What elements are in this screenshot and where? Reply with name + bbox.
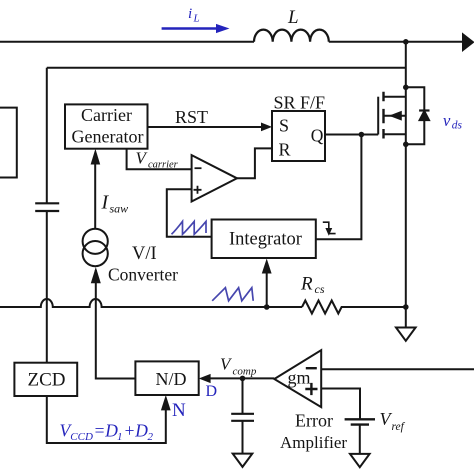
left cropped box [0, 108, 17, 178]
current source circles [83, 229, 108, 267]
wire left sense vertical lower [46, 211, 48, 363]
waveform step glyph [323, 222, 336, 234]
svg-text:1: 1 [117, 431, 123, 443]
wire N/D output to V/I [96, 283, 136, 379]
label Vcomp [220, 354, 257, 377]
svg-text:CCD: CCD [70, 431, 93, 443]
capacitor C-sense [35, 203, 59, 211]
transistor Q1 body arrow [390, 112, 401, 120]
wire Q output [325, 134, 378, 136]
node drain mos [403, 85, 409, 91]
wire rail2 [47, 67, 406, 69]
transistor Q1 gate bar [377, 97, 379, 135]
svg-text:V: V [136, 148, 149, 167]
wire ZCD drop [47, 396, 166, 443]
svg-text:N: N [172, 400, 186, 421]
label Isaw [101, 192, 129, 216]
wire gm plus input [321, 389, 360, 420]
wire Vref to ground [359, 425, 361, 454]
svg-text:comp: comp [233, 365, 257, 377]
wire comparator output to R [237, 148, 272, 178]
current source arrow line [95, 270, 97, 283]
svg-text:ds: ds [452, 120, 463, 132]
svg-text:ref: ref [392, 421, 406, 433]
node rcs left [264, 304, 270, 310]
svg-text:L: L [193, 13, 200, 25]
label Vcarrier [136, 148, 179, 170]
comparator plus sign [194, 186, 202, 194]
svg-text:V: V [220, 354, 233, 373]
wire gm minus input [321, 368, 474, 370]
wire cap to ground [242, 421, 244, 454]
wire Vcarrier [127, 149, 192, 170]
wire integrator bottom feed [266, 271, 268, 307]
transistor Q1 drain lead [384, 96, 406, 98]
svg-text:Integrator: Integrator [229, 230, 302, 250]
svg-text:2: 2 [148, 431, 154, 443]
wire Vcomp [210, 377, 274, 379]
svg-text:L: L [287, 7, 299, 28]
wire top rail right [329, 41, 462, 43]
svg-text:Converter: Converter [108, 265, 178, 285]
svg-text:i: i [188, 6, 192, 22]
svg-text:saw: saw [110, 202, 129, 216]
op-amp comparator U1 [192, 155, 237, 201]
wire comparator plus input [167, 189, 212, 237]
wire top rail left [0, 41, 254, 43]
voltage source Vref [345, 419, 375, 424]
svg-text:Carrier: Carrier [81, 105, 132, 125]
box ZCD [14, 363, 77, 396]
svg-text:R: R [279, 139, 291, 159]
svg-text:RST: RST [175, 107, 208, 127]
comparator minus sign [195, 167, 202, 169]
transistor Q1 channel bars [382, 92, 384, 139]
label vds [443, 111, 463, 132]
arrow output right [462, 32, 474, 52]
svg-text:v: v [443, 111, 451, 130]
gm plus sign [305, 383, 317, 395]
wire cs rail with hops [0, 299, 302, 307]
svg-text:=D: =D [94, 420, 119, 440]
arrow iL blue [162, 24, 230, 33]
transistor Q1 source lead [384, 133, 406, 135]
wire current source to carrier [94, 163, 96, 229]
svg-text:+D: +D [124, 420, 149, 440]
svg-text:V/I: V/I [132, 244, 157, 264]
box N/D [135, 361, 198, 395]
transistor Q1 body lead [384, 115, 406, 117]
wire integrator output to gate node [316, 135, 362, 240]
node source mos [403, 142, 409, 148]
ground G3 [233, 454, 253, 467]
waveform sawtooth rcs [212, 288, 253, 301]
arrow current source up [91, 267, 101, 283]
label VCCD equation [60, 420, 154, 443]
arrow integrator feed up [262, 259, 272, 274]
box carrier generator [65, 104, 148, 148]
wire RST [148, 126, 263, 128]
wire Vcomp cap drop [242, 378, 244, 413]
svg-text:S: S [279, 116, 289, 136]
waveform sawtooth comparator [172, 221, 207, 234]
wire left sense vertical upper [46, 68, 48, 204]
body diode D1 [406, 87, 430, 144]
arrow N up into ND [161, 395, 171, 410]
svg-text:cs: cs [315, 282, 325, 296]
resistor Rcs [302, 301, 406, 314]
arrow vcomp into ND [199, 374, 211, 383]
ground G1 [396, 307, 416, 341]
box integrator [212, 220, 316, 259]
node vcomp [240, 376, 246, 382]
node drain top [403, 39, 409, 45]
arrow Isaw up [91, 149, 101, 165]
node gate [359, 132, 365, 138]
svg-text:carrier: carrier [148, 160, 179, 171]
label Rcs [300, 274, 325, 296]
svg-text:D: D [206, 383, 218, 400]
svg-text:Error: Error [295, 411, 333, 431]
svg-text:Q: Q [311, 126, 324, 146]
gm amplifier U2 [274, 350, 321, 407]
label Vref [380, 409, 406, 433]
svg-text:ZCD: ZCD [28, 370, 66, 391]
svg-text:gm: gm [288, 368, 311, 388]
inductor L [254, 30, 329, 42]
wire drain vertical [405, 42, 407, 307]
svg-text:Amplifier: Amplifier [280, 433, 347, 452]
arrow RST into S [261, 123, 272, 132]
svg-text:N/D: N/D [156, 369, 187, 389]
node rcs right [403, 304, 409, 310]
gm minus sign [306, 367, 317, 369]
capacitor C-comp [231, 414, 254, 421]
svg-text:Generator: Generator [72, 127, 144, 147]
ground G2 [350, 454, 370, 467]
svg-text:R: R [300, 274, 313, 295]
svg-text:I: I [101, 192, 110, 214]
label iL [188, 6, 200, 25]
box SR F/F [272, 111, 325, 161]
svg-text:SR F/F: SR F/F [274, 92, 326, 112]
